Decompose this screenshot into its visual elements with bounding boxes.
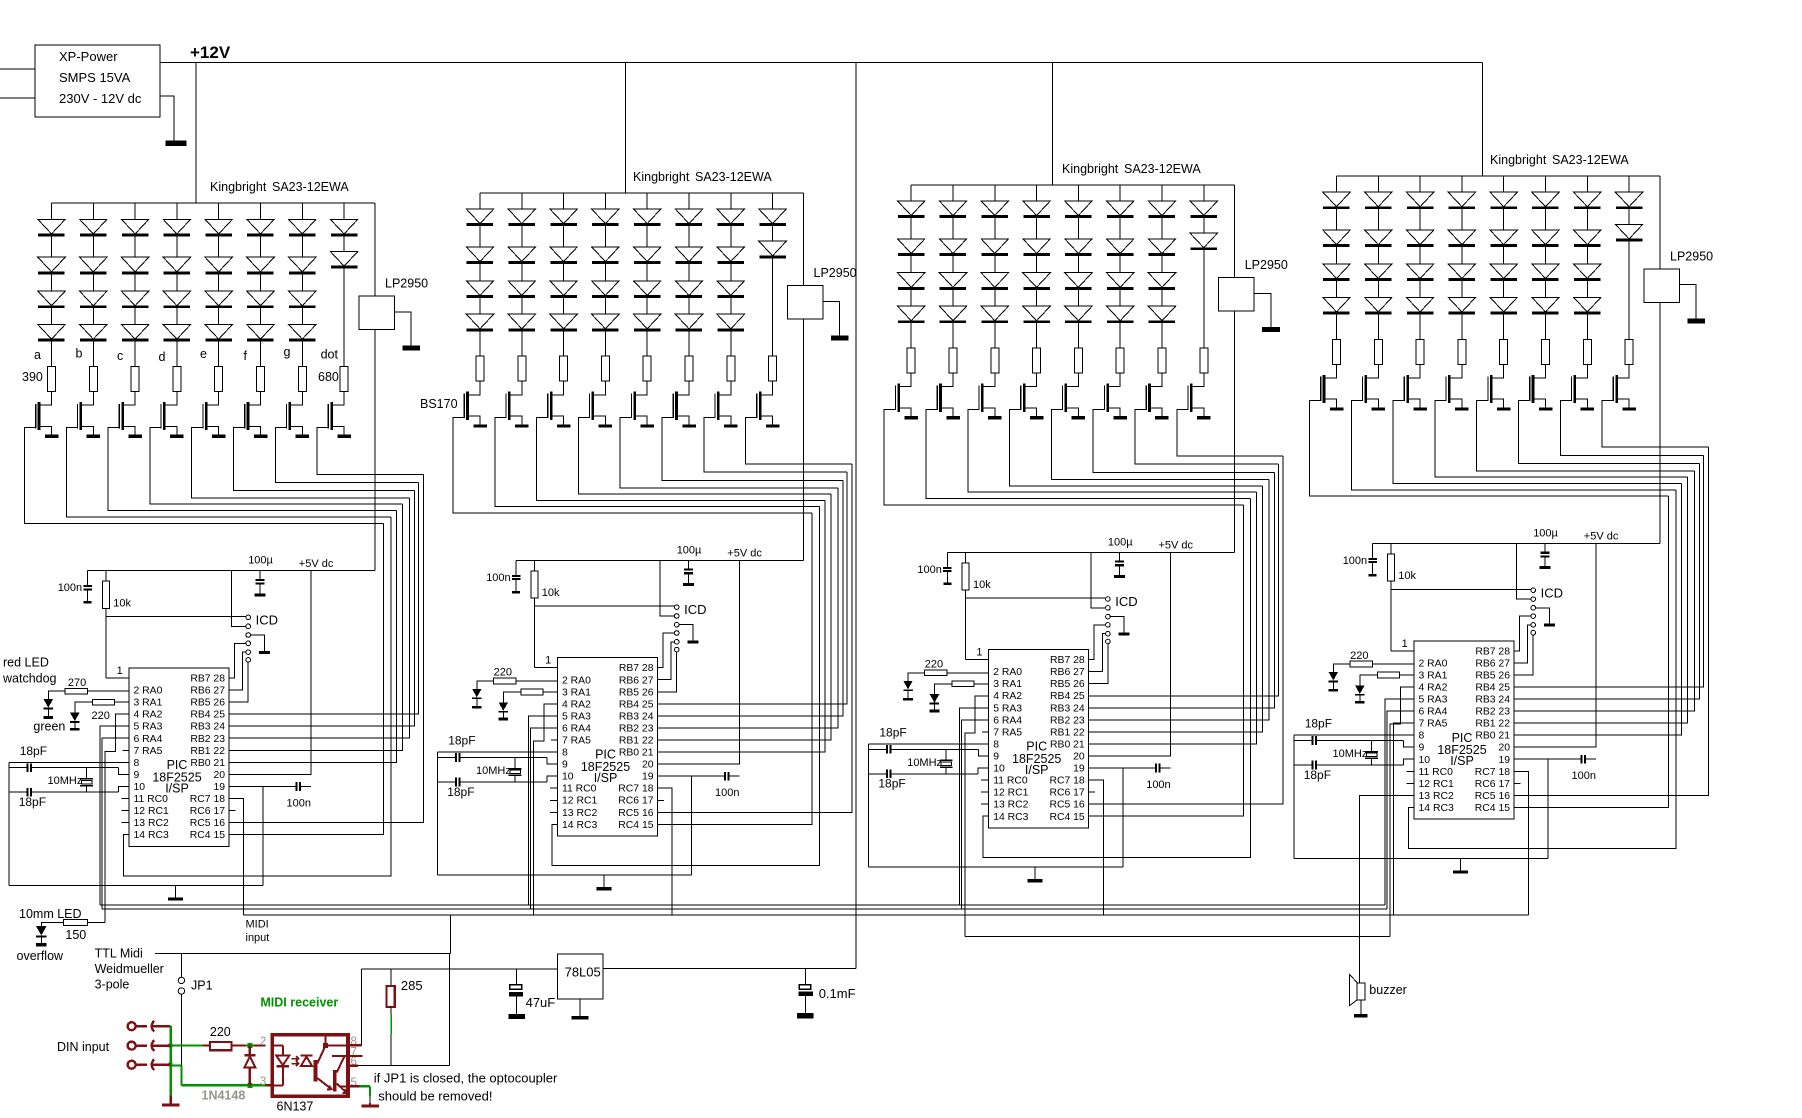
svg-text:+5V dc: +5V dc [1159,540,1194,552]
svg-text:DIN input: DIN input [57,1040,110,1054]
regulator U2b LP2950 block 2 [788,286,824,320]
ground MOSFET b block 4 [1372,407,1386,410]
microcontroller U3 PIC 18F2525 block 3 [989,650,1089,828]
wire column d to resistor block 3 [1036,323,1038,348]
PIC pin 11 stub block 3 [981,779,989,781]
svg-text:3 RA1: 3 RA1 [993,679,1022,690]
svg-text:+5V dc: +5V dc [1584,531,1619,543]
wire column b to resistor block 4 [1377,314,1379,339]
svg-text:Kingbright: Kingbright [1490,153,1547,167]
svg-text:47uF: 47uF [526,995,556,1010]
svg-text:100µ: 100µ [1533,528,1558,540]
wire OSC1 pin 9 block 4 [1404,741,1414,748]
ground MOSFET d block 4 [1455,407,1469,410]
wire bus2 RA4 sync [102,908,1387,910]
wire MOSFET source to ground column b block 2 [509,416,522,424]
wire column a to resistor block 2 [479,331,481,356]
LED segment d diode 3 block 2 [604,264,606,281]
wire ICD pin 2 to +5V block 1 [231,571,246,627]
resistor column g block 4 [1583,339,1591,364]
LED red watchdog block 4 [1333,664,1350,672]
svg-text:14 RC3: 14 RC3 [1419,803,1454,814]
resistor 10k MCLR pullup block 2 [533,560,535,571]
LED segment e diode 1 block 4 [1490,192,1517,207]
buzzer BZ1 [1350,974,1358,1005]
resistor column f block 3 [1116,348,1124,373]
LED segment a diode 1 block 2 [466,209,493,224]
svg-text:+12V: +12V [190,43,231,62]
LED segment e diode 1 block 2 [634,209,661,224]
wire DIN3 green to JP1 [171,1064,182,1066]
svg-text:13 RC2: 13 RC2 [562,808,597,819]
transistor Qe BS170 block 2 [633,392,636,420]
wire MOSFET source to ground column dot block 2 [760,416,773,424]
LED segment c diode 1 block 2 [550,209,577,224]
LED segment a diode 4 block 2 [479,298,481,315]
wire VSS pin 19 to ground line block 2 [691,776,693,875]
PIC pin 12 stub block 4 [1407,782,1415,784]
LED segment g diode 1 block 1 [289,219,317,234]
wire resistor to MOSFET drain column f block 3 [1108,373,1121,387]
ground MOSFET a block 3 [905,416,919,419]
optocoupler detector diode [300,1054,312,1056]
svg-text:18pF: 18pF [447,785,474,799]
wire bus stub column d block 3 [1036,185,1038,201]
svg-text:LP2950: LP2950 [1670,249,1713,263]
LED segment g diode 3 block 1 [301,274,303,291]
LED segment c diode 2 block 4 [1419,209,1421,230]
wire MCLR net block 1 [105,608,107,678]
wire VDD pin 20 to +5V block 1 [229,571,311,775]
optocoupler transistor 1 [314,1060,318,1081]
resistor column dot block 1 [340,367,348,392]
svg-text:MIDI: MIDI [246,919,269,931]
wire MOSFET source to ground column e block 4 [1491,399,1504,407]
svg-text:Weidmueller: Weidmueller [95,962,164,976]
ground MOSFET d block 1 [170,435,184,438]
wire DIN pin 3 stub [151,1063,171,1065]
wire ICD pin 3 to ground block 4 [1536,608,1550,624]
svg-text:20: 20 [642,760,654,771]
svg-text:19: 19 [642,772,654,783]
svg-text:SA23-12EWA: SA23-12EWA [695,170,772,184]
LED green block 4 [1360,675,1378,685]
LED green block 1 [75,702,93,712]
svg-text:100n: 100n [1343,555,1367,567]
wire RA4 pin 6 to bus2 block 3 [962,720,989,909]
wire resistor to MOSFET drain column dot block 1 [332,392,345,406]
LED segment c diode 4 block 2 [563,298,565,315]
LED segment f diode 4 block 2 [688,298,690,315]
LED segment d diode 2 block 3 [1036,218,1038,239]
ground ICD block 1 [259,651,270,654]
transistor Qdot BS170 block 2 [759,392,762,420]
ground MOSFET g block 1 [296,435,310,438]
wire +5V rail block 2 [516,559,803,561]
wire MOSFET source to ground column e block 3 [1066,408,1079,416]
ground MOSFET b block 3 [946,416,960,419]
transistor Qdot BS170 block 4 [1615,375,1618,403]
svg-text:680: 680 [318,370,339,384]
LED segment b diode 1 block 2 [508,209,535,224]
svg-text:5 RA3: 5 RA3 [562,711,591,722]
transistor Qa BS170 block 2 [466,392,469,420]
wire MIDI row green to 220 [171,1044,203,1046]
PIC pin 12 stub block 3 [981,791,989,793]
svg-text:RB3 24: RB3 24 [1475,695,1510,706]
LED overflow 10mm red [41,923,63,926]
wire bus stub column a block 3 [910,185,912,201]
wire ICD pin 6 to RB5 block 2 [657,652,676,692]
LED segment b diode 4 block 3 [952,290,954,307]
wire MOSFET source to ground column d block 2 [593,416,606,424]
capacitor 100n decoupling block 3 [1089,767,1156,769]
svg-text:green: green [33,719,65,733]
wire VSS pin 8 block 3 [869,743,989,745]
microcontroller U1 PIC 18F2525 block 1 [129,668,229,846]
svg-text:JP1: JP1 [191,979,213,993]
LED segment f diode 2 block 4 [1545,209,1547,230]
LED segment b diode 4 block 4 [1377,281,1379,298]
wire ICD pin 2 to +5V block 3 [1091,552,1106,608]
wire ICD pin 4 to RB7 block 1 [229,643,246,678]
LED segment f diode 1 block 2 [675,209,702,224]
transistor Qb BS170 block 3 [939,384,942,412]
ground power supply [160,96,174,141]
wire column f to resistor block 3 [1119,323,1121,348]
transistor Qa BS170 block 3 [897,384,900,412]
wire +12V to display block 4 [1482,63,1484,176]
wire MOSFET source to ground column b block 4 [1366,399,1379,407]
svg-text:7 RA5: 7 RA5 [562,736,591,747]
resistor 220 green LED block 1 [93,699,115,705]
wire gate c to PIC pin block 4 [1514,483,1682,735]
wire VSS pin 8 block 2 [437,751,557,753]
ground overflow LED [36,943,47,947]
wire resistor to MOSFET drain column g block 3 [1150,373,1163,387]
svg-text:e: e [200,347,207,361]
wire MOSFET source to ground column d block 4 [1449,399,1462,407]
wire gate dot to PIC pin block 3 [1089,456,1284,804]
ground MOSFET a block 1 [45,435,59,438]
svg-text:13 RC2: 13 RC2 [1419,791,1454,802]
wire crystal ground rail block 2 [436,752,438,875]
wire resistor to MOSFET drain column d block 1 [164,392,177,406]
connector DIN pin 1 [128,1022,136,1030]
transistor Qdot BS170 block 1 [330,402,333,430]
optocoupler pin 7 stub [348,1055,363,1057]
wire resistor to MOSFET drain column a block 3 [899,373,912,387]
svg-text:RB0 21: RB0 21 [190,758,225,769]
svg-text:0.1mF: 0.1mF [819,986,856,1001]
transistor Qb BS170 block 1 [80,402,83,430]
ICD pin 6 block 2 [674,647,679,652]
svg-text:100µ: 100µ [1108,536,1133,548]
LED segment e diode 3 block 4 [1503,247,1505,264]
svg-text:RB2 23: RB2 23 [1475,707,1510,718]
wire resistor to MOSFET drain column a block 4 [1324,364,1337,378]
LED segment a diode 4 block 3 [910,290,912,307]
wire gate e to PIC pin block 3 [1089,480,1270,720]
wire gate e to PIC pin block 2 [657,488,838,728]
wire RA3 pin 5 to bus1 block 1 [100,726,129,905]
wire RA2 pin 4 block 4 [1390,687,1414,937]
svg-text:18pF: 18pF [448,734,475,748]
wire gate c to PIC pin block 2 [657,500,825,752]
LED segment d diode 4 block 1 [176,308,178,325]
wire anode bus block 1 [52,202,375,204]
svg-text:1: 1 [1402,638,1408,650]
wire ICD pin 6 to RB5 block 3 [1089,644,1108,684]
svg-text:220: 220 [1350,650,1368,662]
svg-text:I/SP: I/SP [165,781,189,795]
LED segment f diode 2 block 1 [260,236,262,257]
ICD pin 5 block 1 [246,650,251,655]
wire gate g staircase block 2 [704,417,847,472]
svg-text:13 RC2: 13 RC2 [134,818,169,829]
optocoupler arrows [292,1056,299,1061]
wire bus stub column b block 4 [1377,176,1379,192]
svg-text:10: 10 [562,772,574,783]
ground 0.1mF [797,1013,814,1019]
ground ICD block 3 [1119,633,1130,636]
svg-text:c: c [117,349,123,363]
wire DIN pin 2 stub [151,1044,171,1046]
wire VDD pin 20 to +5V block 4 [1514,544,1596,748]
wire gate dot staircase block 3 [1177,409,1283,456]
svg-text:100n: 100n [917,564,941,576]
wire column dot to resistor block 1 [343,268,345,366]
wire bus to LP2950 block 2 [802,193,804,286]
LED segment b diode 3 block 1 [92,274,94,291]
wire RC2 pin 13 to buzzer block 4 [1359,795,1414,982]
svg-text:ICD: ICD [1541,585,1563,600]
wire +5V rail block 3 [947,551,1234,553]
diode 1N4148 [249,1046,251,1055]
wire gate e to PIC pin block 1 [229,498,410,738]
LED segment d diode 4 block 2 [604,298,606,315]
wire ground line under PIC block 3 [869,866,1123,868]
wire MCLR to PIC pin 1 block 4 [1391,650,1414,652]
wire gate e to PIC pin block 4 [1514,471,1695,711]
wire gate c staircase block 4 [1393,401,1682,484]
svg-text:red LED: red LED [3,655,49,669]
resistor column c block 3 [991,348,999,373]
svg-text:18pF: 18pF [879,726,906,740]
svg-text:Kingbright: Kingbright [1062,162,1119,176]
svg-text:RB3 24: RB3 24 [190,722,225,733]
ICD pin 6 block 1 [246,658,251,663]
svg-text:19: 19 [1498,755,1510,766]
LED segment e diode 4 block 4 [1503,281,1505,298]
transistor Qb BS170 block 2 [508,392,511,420]
svg-text:220: 220 [925,659,943,671]
svg-text:RC6 17: RC6 17 [618,796,653,807]
resistor column f block 1 [257,367,265,392]
svg-text:4 RA2: 4 RA2 [134,710,163,721]
resistor column g block 2 [727,356,735,381]
svg-text:100n: 100n [715,787,739,799]
wire ICD pin 3 to ground block 1 [251,635,265,651]
svg-text:b: b [76,347,83,361]
wire gate g staircase block 4 [1560,401,1703,456]
wire MOSFET source to ground column dot block 4 [1617,399,1630,407]
svg-text:6 RA4: 6 RA4 [562,724,591,735]
resistor 270 watchdog block 4 [1350,661,1373,667]
LED segment f diode 2 block 2 [688,226,690,247]
transistor Qa BS170 block 1 [38,402,41,430]
svg-text:RC6 17: RC6 17 [1475,779,1510,790]
wire resistor to MOSFET drain column f block 4 [1533,364,1546,378]
svg-text:RC6 17: RC6 17 [1049,788,1084,799]
LED segment dot diode 1 block 2 [759,209,787,224]
optocoupler U5 6N137 box [272,1035,348,1097]
LED segment d diode 3 block 1 [176,274,178,291]
svg-text:RB6 27: RB6 27 [1050,667,1085,678]
wire column g to resistor block 4 [1586,314,1588,339]
LED segment f diode 4 block 3 [1119,290,1121,307]
LED segment a diode 3 block 2 [479,264,481,281]
svg-text:5 RA3: 5 RA3 [134,722,163,733]
LED segment d diode 4 block 3 [1036,290,1038,307]
LED segment a diode 2 block 1 [51,236,53,257]
wire resistor to MOSFET drain column b block 4 [1366,364,1379,378]
wire MCLR net block 2 [533,598,535,668]
resistor column d block 2 [601,356,609,381]
wire bus stub column dot block 3 [1203,185,1205,201]
ground ICD block 4 [1544,624,1555,627]
wire gate d staircase block 4 [1435,401,1688,478]
LED segment d diode 2 block 1 [176,236,178,257]
svg-text:220: 220 [210,1025,231,1039]
ground buzzer [1354,1014,1367,1017]
wire bus stub column e block 1 [218,203,220,219]
wire bus stub column f block 1 [260,203,262,219]
LED segment d diode 4 block 4 [1461,281,1463,298]
wire MOSFET source to ground column e block 1 [206,426,219,434]
svg-text:14 RC3: 14 RC3 [562,820,597,831]
resistor column e block 1 [215,367,223,392]
wire anode bus block 4 [1337,175,1660,177]
resistor column d block 3 [1033,348,1041,373]
svg-text:18pF: 18pF [1304,768,1331,782]
wire MOSFET source to ground column f block 1 [248,426,261,434]
svg-text:RB4 25: RB4 25 [1475,682,1510,693]
PIC pin 11 stub block 2 [550,787,558,789]
svg-text:12 RC1: 12 RC1 [993,788,1028,799]
svg-text:SA23-12EWA: SA23-12EWA [272,180,349,194]
svg-text:should be removed!: should be removed! [378,1089,492,1104]
ground 78L05 [579,999,581,1016]
wire TTL Midi line [155,953,450,955]
wire ground line under PIC block 1 [9,885,263,887]
ICD pin 5 block 4 [1531,623,1536,628]
LED segment g diode 4 block 4 [1586,281,1588,298]
svg-text:6 RA4: 6 RA4 [993,715,1022,726]
wire gate dot to PIC pin block 2 [657,464,852,812]
ground MOSFET e block 1 [212,435,226,438]
svg-text:Kingbright: Kingbright [633,170,690,184]
ground MOSFET d block 3 [1030,416,1044,419]
svg-text:10mm LED: 10mm LED [19,907,82,921]
wire column a to resistor block 1 [51,341,53,366]
resistor column d block 1 [173,367,181,392]
LED red watchdog block 1 [48,691,65,699]
svg-text:RC6 17: RC6 17 [190,806,225,817]
regulator U3b LP2950 block 3 [1219,278,1255,312]
wire gate dot to PIC pin block 1 [229,474,424,822]
svg-text:150: 150 [65,928,86,942]
wire bus stub column b block 1 [92,203,94,219]
wire MOSFET source to ground column a block 4 [1324,399,1337,407]
wire bus stub column b block 2 [521,193,523,209]
wire gate a to PIC pin block 2 [657,513,812,824]
ground MOSFET c block 3 [988,416,1002,419]
transistor Qd BS170 block 3 [1023,384,1026,412]
ICD pin 2 block 2 [674,614,679,619]
transistor Qg BS170 block 1 [288,402,291,430]
svg-text:4 RA2: 4 RA2 [562,699,591,710]
ICD pin 2 block 3 [1106,606,1111,611]
LED segment b diode 2 block 4 [1377,209,1379,230]
resistor 270 watchdog block 3 [925,670,948,676]
wire gate f to PIC pin block 2 [657,480,843,716]
svg-text:RC7 18: RC7 18 [1475,767,1510,778]
wire +12V to 78L05 [855,63,857,969]
wire gate a staircase block 2 [453,417,812,513]
svg-text:ICD: ICD [256,613,278,628]
svg-text:9: 9 [134,770,140,781]
wire gate a to PIC pin block 1 [229,523,384,834]
wire bus stub column c block 1 [134,203,136,219]
wire +12V rail [160,62,1483,64]
wire MOSFET source to ground column f block 4 [1533,399,1546,407]
wire gate a staircase block 3 [884,409,1243,505]
wire gate a staircase block 1 [25,428,384,524]
resistor column c block 4 [1416,339,1424,364]
LED segment b diode 4 block 2 [521,298,523,315]
LED segment e diode 2 block 4 [1503,209,1505,230]
wire OSC2 pin 10 block 3 [978,768,989,774]
wire resistor to MOSFET drain column d block 4 [1449,364,1462,378]
wire gate g staircase block 1 [275,428,418,483]
ICD pin 1 block 1 [246,615,251,620]
LED segment e diode 2 block 1 [218,236,220,257]
svg-text:10MHz: 10MHz [1333,748,1368,760]
wire MOSFET source to ground column a block 3 [899,408,912,416]
transistor Qc BS170 block 2 [550,392,553,420]
wire gate b to PIC RC3 wrap block 1 [123,517,391,876]
wire gate dot staircase block 2 [746,417,852,464]
wire resistor to MOSFET drain column f block 2 [677,381,690,395]
wire bus stub column g block 1 [301,203,303,219]
LED segment dot diode 2 block 2 [772,226,774,241]
PIC pin 17 stub block 2 [657,799,664,801]
svg-text:RB6 27: RB6 27 [190,686,225,697]
LED segment a diode 3 block 3 [910,256,912,273]
transistor Qd BS170 block 4 [1448,375,1451,403]
LED segment e diode 4 block 2 [646,298,648,315]
svg-text:RB1 22: RB1 22 [1050,727,1085,738]
ICD pin 2 block 4 [1531,597,1536,602]
svg-text:11 RC0: 11 RC0 [993,776,1028,787]
svg-text:1: 1 [117,665,123,677]
resistor column c block 1 [131,367,139,392]
LED segment f diode 4 block 4 [1545,281,1547,298]
wire bus stub column d block 1 [176,203,178,219]
LED segment c diode 2 block 3 [994,218,996,239]
wire gate b staircase block 2 [495,417,820,506]
